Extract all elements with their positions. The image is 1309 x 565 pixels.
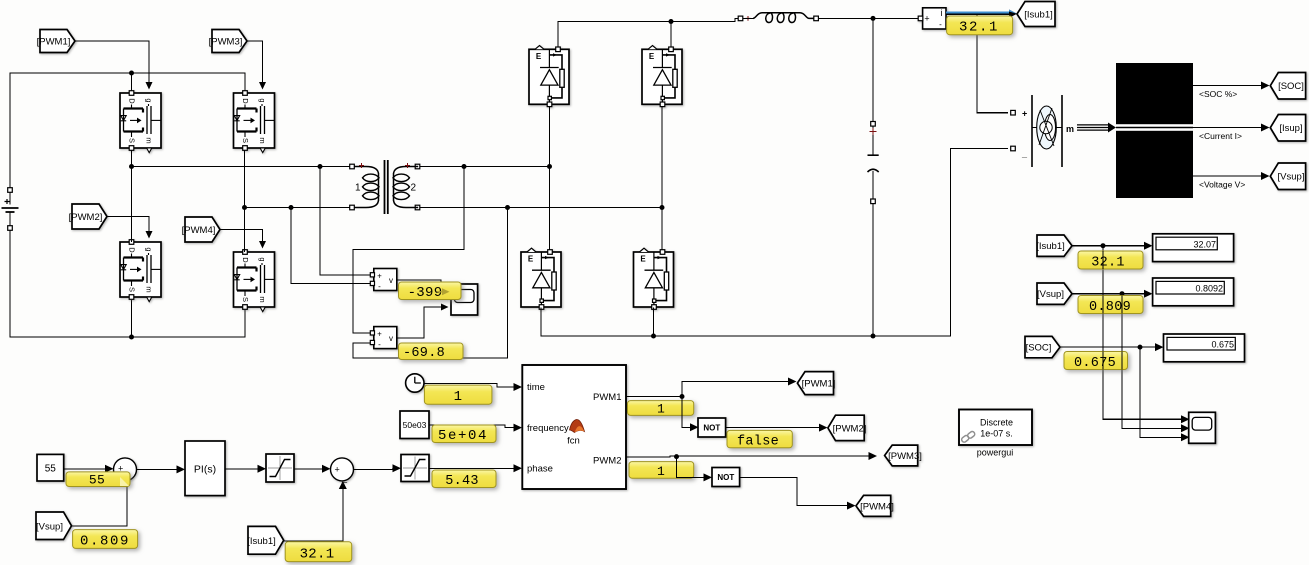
display value label 5e+04 (432, 425, 496, 444)
display value label 1 pwm1 (628, 401, 694, 417)
wire: saturation2 to fcn phase (429, 467, 514, 469)
svg-text:55: 55 (89, 473, 105, 488)
wire: 50e03 to fcn frequency (429, 425, 514, 428)
display value label 0.809 row (1078, 296, 1143, 315)
svg-text:32.1: 32.1 (1091, 255, 1125, 270)
wire: VM2 plus lead from secondary top tap (353, 167, 464, 334)
svg-text:[PWM4]: [PWM4] (860, 501, 894, 512)
logic NOT2 (712, 468, 740, 487)
Goto tag [PWM3] (885, 445, 922, 466)
From tag [Vsup] feedback (36, 512, 72, 540)
display value label 5.43 (432, 470, 496, 489)
svg-text:_: _ (1021, 149, 1028, 159)
svg-text:+: + (377, 330, 382, 339)
display value label 1 pwm2 (629, 462, 694, 479)
constant 55 (37, 454, 64, 481)
svg-text:[PWM2]: [PWM2] (833, 423, 867, 434)
svg-text:32.1: 32.1 (959, 20, 999, 36)
svg-text:fcn: fcn (567, 436, 580, 447)
wire: branch from sensor output to battery plus (977, 14, 1008, 113)
transistor Q4 mosfet (234, 250, 275, 312)
bus selector (black block) (1116, 63, 1193, 198)
transistor Q3 mosfet (120, 240, 161, 302)
wire: Vsup to display (1072, 293, 1144, 295)
svg-text:false: false (737, 434, 779, 449)
svg-text:NOT: NOT (703, 424, 720, 433)
svg-text:<Current I>: <Current I> (1199, 131, 1242, 141)
svg-text:+: + (1022, 109, 1027, 119)
logic NOT1 (698, 418, 726, 437)
From tag [PWM2] (69, 204, 107, 229)
node: capacitor tap on top rail (871, 16, 876, 21)
svg-text:+: + (377, 272, 382, 281)
From tag [SOC] display row (1025, 336, 1060, 357)
svg-text:v: v (389, 276, 393, 285)
svg-text:[PWM3]: [PWM3] (209, 37, 243, 48)
node: VM2 plus tap (462, 164, 467, 169)
svg-text:0.809: 0.809 (1089, 300, 1131, 315)
wire: saturation1 to sum2 (294, 468, 322, 470)
Goto tag [PWM2] (828, 415, 866, 440)
svg-text:+: + (335, 465, 340, 475)
node: right leg midpoint (242, 205, 247, 210)
wire: rectifier right leg vertical (661, 107, 663, 250)
wire: PWM1 to Q1 gate (75, 41, 149, 87)
node: top bus / Q1 drain junction (129, 71, 134, 76)
wire: PWM2 to Q3 gate (107, 217, 149, 237)
DC voltage source battery left (2, 188, 19, 231)
display value label 1 time (424, 385, 492, 405)
node: bottom bus junction (129, 335, 134, 340)
wire: PWM2 output to PWM3 goto (626, 456, 869, 457)
svg-text:0.809: 0.809 (80, 533, 130, 549)
svg-text:50e03: 50e03 (403, 420, 427, 430)
clock block (406, 374, 424, 392)
svg-text:frequency: frequency (527, 423, 569, 434)
battery supply icon (1032, 95, 1074, 167)
svg-text:[SOC]: [SOC] (1026, 342, 1052, 353)
svg-text:phase: phase (527, 464, 553, 475)
MATLAB function block fcn (522, 365, 626, 489)
node: secondary top to diode leg (547, 164, 552, 169)
svg-text:5e+04: 5e+04 (438, 428, 488, 444)
wire: PI to saturation1 (225, 468, 258, 470)
wire: PWM2 branch to NOT2 (677, 457, 704, 478)
wire: Vsup feedback into sum1 (72, 482, 128, 526)
svg-text:0.8092: 0.8092 (1195, 284, 1223, 294)
svg-text:0.675: 0.675 (1074, 356, 1116, 371)
svg-text:1: 1 (657, 464, 665, 479)
wire: Isub1 to display (1072, 245, 1144, 247)
wire: sum1 to PI (137, 468, 177, 470)
display value label 32.1 row (1078, 251, 1143, 270)
svg-text:0.675: 0.675 (1211, 340, 1234, 350)
display value label -69.8 (399, 343, 464, 361)
Goto tag [PWM1] (797, 372, 835, 395)
svg-text:5.43: 5.43 (445, 474, 479, 489)
svg-text:[Isub1]: [Isub1] (1036, 241, 1065, 252)
svg-text:i: i (941, 8, 943, 18)
wire: constant to sum1 (64, 468, 105, 470)
sum junction Sum1 (114, 458, 137, 481)
wire: transformer secondary top to rectifier left leg (420, 166, 550, 168)
svg-text:1e-07 s.: 1e-07 s. (980, 429, 1013, 439)
wire: VM1 output toward scope (397, 280, 441, 288)
Goto tag [Vsup] right (1270, 163, 1305, 190)
wire: D2 top drop (670, 22, 672, 47)
wire: clock to fcn time (424, 383, 514, 387)
From tag [PWM4] (182, 217, 220, 242)
current measurement Iac (918, 8, 946, 29)
From tag [Vsup] display row (1037, 283, 1072, 304)
inductor L1 (738, 13, 818, 23)
display value label false (727, 430, 792, 449)
display value label 0.809 feedback (73, 530, 138, 550)
PID controller PI(s) (185, 441, 225, 496)
diode D4 (634, 248, 674, 309)
wire: NOT1 to PWM2 goto (726, 427, 819, 429)
svg-text:32.07: 32.07 (1193, 239, 1216, 249)
svg-text:<SOC %>: <SOC %> (1199, 89, 1237, 99)
diode D1 (529, 46, 569, 107)
wire: DC bus top from battery to bridge (10, 73, 245, 190)
node: bottom bus capacitor tap (871, 334, 876, 339)
node: VM1 minus tap (289, 205, 294, 210)
svg-text:NOT: NOT (717, 473, 734, 482)
svg-text:[PWM4]: [PWM4] (182, 225, 216, 236)
wire: SOC output (1193, 85, 1261, 87)
display value label 32.1 top (947, 16, 1013, 36)
svg-text:[Vsup]: [Vsup] (36, 521, 63, 532)
svg-text:powergui: powergui (977, 448, 1014, 458)
Goto tag [Isup] right (1270, 115, 1305, 142)
display Display2 0.8092 (1153, 278, 1234, 306)
wire: VM1 plus lead (320, 167, 371, 276)
svg-text:v: v (389, 334, 393, 343)
From tag [Isub1] display row (1036, 235, 1072, 256)
node: VM2 minus tap (505, 205, 510, 210)
svg-text:-: - (378, 340, 381, 349)
svg-text:-: - (378, 282, 381, 291)
wire: measurement bus m to demux (1077, 123, 1116, 133)
svg-text:[PWM1]: [PWM1] (802, 379, 836, 390)
node: bottom bus junction D4 (651, 334, 656, 339)
svg-text:[PWM2]: [PWM2] (69, 212, 103, 223)
svg-text:1: 1 (657, 402, 665, 417)
node: secondary bottom to diode leg (660, 205, 665, 210)
wire: rectifier top bus to inductor (558, 18, 739, 46)
svg-text:-69.8: -69.8 (403, 346, 445, 361)
svg-text:[PWM3]: [PWM3] (888, 451, 922, 462)
svg-text:1: 1 (454, 389, 463, 405)
svg-text:_: _ (341, 473, 348, 483)
svg-text:<Voltage V>: <Voltage V> (1199, 180, 1245, 190)
svg-text:[Vsup]: [Vsup] (1037, 289, 1064, 300)
wire: branch up to mosfet Q3 source (131, 300, 133, 337)
wire: NOT2 to PWM4 goto (740, 477, 847, 505)
svg-text:[SOC]: [SOC] (1278, 81, 1304, 92)
battery supply block ports (1011, 109, 1028, 159)
transistor Q2 mosfet (234, 91, 275, 153)
Goto tag [PWM4] (856, 495, 894, 516)
svg-text:32.1: 32.1 (300, 546, 335, 562)
capacitor C1 (868, 18, 879, 336)
svg-text:m: m (1066, 124, 1074, 134)
wire: VM1 minus lead (291, 208, 371, 284)
wire: VM2 minus lead from secondary bottom tap (353, 208, 508, 359)
svg-text:[Isub1]: [Isub1] (1024, 10, 1053, 21)
powergui block (959, 410, 1032, 446)
wire: left leg midpoint to transformer primary top (132, 151, 351, 243)
svg-text:PWM1: PWM1 (593, 392, 622, 403)
svg-text:Discrete: Discrete (980, 418, 1013, 428)
wire: D4 bottom drop (653, 308, 655, 337)
svg-text:+: + (924, 13, 929, 23)
wire: inductor to current sensor (818, 17, 920, 19)
wire: Vsup branch to scope (1122, 294, 1181, 429)
node: left leg midpoint (129, 164, 134, 169)
svg-text:PI(s): PI(s) (194, 464, 216, 476)
svg-text:[PWM1]: [PWM1] (37, 37, 71, 48)
wire: Isub1 feedback into sum2 (284, 489, 343, 541)
diode D3 (521, 248, 561, 309)
svg-text:[Isub1]: [Isub1] (247, 536, 276, 547)
wire: branch down to mosfet Q1 drain (131, 73, 133, 91)
wire: right leg midpoint to transformer primary bottom (245, 151, 351, 253)
wire: current sensor output to goto Isub1 (selected blue) (946, 12, 1010, 15)
wire: Isub1 branch to scope (1103, 246, 1181, 420)
wire: transformer secondary bottom to rectifier right leg (420, 207, 662, 209)
Goto tag [Isub1] top (1017, 2, 1055, 27)
wire: DC bus bottom from battery (10, 230, 245, 337)
diode D2 (642, 46, 682, 107)
scope Scope2 (1189, 412, 1216, 443)
wire: PWM3 to Q2 gate (247, 41, 263, 87)
node: top bus junction (669, 19, 674, 24)
transistor Q1 mosfet (120, 91, 161, 153)
Goto tag [SOC] right (1270, 73, 1305, 100)
svg-text:2: 2 (411, 183, 417, 194)
svg-text:-: - (939, 20, 942, 29)
saturation Sat2 (401, 455, 429, 482)
svg-text:PWM2: PWM2 (593, 455, 622, 466)
wire: rectifier left leg vertical (549, 107, 551, 250)
svg-text:-399: -399 (408, 285, 443, 301)
display value label 0.675 row (1064, 352, 1128, 371)
From tag [PWM1] (37, 30, 75, 53)
voltage measurement VM2 (370, 327, 397, 349)
wire: Current output (1193, 127, 1261, 129)
wire: scope feed overlays over labels (1103, 251, 1122, 370)
svg-text:[Isup]: [Isup] (1279, 123, 1302, 134)
transformer T1 (350, 160, 420, 214)
wire: PWM1 output to goto (626, 382, 788, 397)
display Display1 32.07 (1153, 234, 1234, 262)
svg-text:time: time (527, 382, 545, 393)
svg-text:55: 55 (45, 464, 57, 475)
wire: VM2 output to scope input 2 (397, 307, 441, 338)
svg-text:[Vsup]: [Vsup] (1278, 172, 1305, 183)
wire: sum2 to saturation2 (354, 468, 393, 469)
sum junction Sum2 (331, 458, 354, 483)
constant 50e03 (400, 411, 429, 439)
wire: SOC to display (1060, 346, 1155, 348)
wire: rectifier bottom bus (541, 149, 1008, 337)
node: VM1 plus tap (318, 164, 323, 169)
wire: PWM4 to Q4 gate (220, 230, 263, 247)
voltage measurement VM1 (370, 269, 397, 292)
From tag [PWM3] (209, 30, 247, 53)
display value label -399 (399, 282, 462, 301)
svg-text:1: 1 (355, 183, 361, 194)
scope Scope1 (451, 284, 478, 315)
saturation Sat1 (266, 454, 294, 482)
wire: PWM branch overlays over labels (677, 401, 683, 478)
display value label 55 (66, 472, 130, 488)
display Display3 0.675 (1164, 334, 1245, 362)
wire: SOC branch to scope (1140, 347, 1181, 437)
From tag [Isub1] feedback (247, 526, 283, 554)
wire: Voltage output (1193, 175, 1261, 177)
wire: PWM1 branch to NOT1 (682, 397, 690, 428)
display value label 32.1 feedback (285, 542, 352, 563)
